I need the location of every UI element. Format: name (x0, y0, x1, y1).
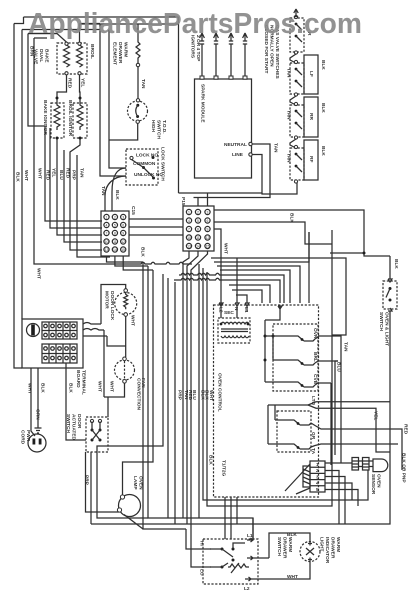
fan center dashes (124, 361, 126, 380)
svg-text:13: 13 (105, 248, 109, 252)
right bus x332 down (331, 230, 333, 463)
svg-text:WHT: WHT (223, 243, 229, 254)
svg-text:PRP: PRP (71, 170, 77, 181)
svg-text:LOCK SWITCH: LOCK SWITCH (160, 147, 166, 181)
svg-text:WHT: WHT (23, 170, 29, 181)
svg-text:3: 3 (122, 215, 124, 219)
svg-text:4: 4 (188, 219, 190, 223)
svg-text:AppliancePartsPros.com: AppliancePartsPros.com (28, 8, 362, 40)
wire RR to RF (290, 139, 296, 148)
wire R to LF (290, 54, 296, 63)
motor coil (124, 292, 128, 309)
svg-text:RED: RED (67, 78, 73, 89)
convection fan circle (115, 360, 135, 380)
wire P15 feed left x186 (178, 17, 180, 193)
terminal block right wires (325, 471, 358, 525)
oven lamp circle (119, 495, 141, 517)
svg-text:TAN: TAN (343, 342, 349, 352)
RF contacts (294, 145, 297, 148)
svg-text:YEL: YEL (51, 168, 57, 177)
svg-text:T.O.D.: T.O.D. (161, 120, 167, 134)
terminal strip upper (42, 322, 77, 339)
band wire 8 (232, 290, 262, 303)
transformer top wires (221, 303, 247, 318)
svg-text:LO: LO (199, 569, 205, 576)
gas valve switch RF dashed box (290, 148, 304, 180)
svg-text:BLK: BLK (320, 60, 326, 70)
broil ignitor dashed box (73, 103, 87, 138)
wire line (179, 155, 263, 207)
wire P15 right down x221 (214, 229, 221, 303)
connector P15 box (183, 206, 214, 251)
wire top rail L3 (28, 33, 57, 35)
terminal circles valve bottom (65, 72, 68, 75)
terminal squares on module top (200, 76, 204, 79)
wire left bus TAN x77 (77, 155, 110, 257)
middle vertical BLK x199 (198, 264, 200, 518)
wire WHT down from board (31, 368, 38, 436)
svg-text:TAN: TAN (273, 143, 279, 153)
svg-text:10: 10 (105, 240, 109, 244)
svg-text:OVEN & LIGHT: OVEN & LIGHT (384, 312, 390, 346)
band wire 2 (214, 232, 309, 262)
svg-text:4: 4 (106, 223, 108, 227)
svg-text:WHT: WHT (97, 381, 103, 392)
wire left bus BLU x56 (57, 138, 102, 235)
wire R top (294, 9, 298, 17)
svg-text:OVR: OVR (312, 328, 318, 339)
BOTTOM (186, 453, 407, 592)
junction dot broil (79, 97, 82, 100)
resistor bake ignitor (54, 103, 60, 130)
svg-text:12: 12 (206, 236, 210, 240)
GASVALVES (263, 9, 326, 183)
transformer T1 box (218, 318, 250, 343)
svg-text:RED: RED (45, 170, 51, 181)
relay cluster 2 dashed box (277, 411, 311, 452)
resistor warm drawer element (136, 24, 140, 64)
svg-text:3: 3 (207, 210, 209, 214)
svg-text:C15: C15 (130, 206, 136, 215)
svg-text:LIGHT: LIGHT (319, 537, 325, 551)
wire valve to ignitor left (57, 75, 67, 103)
ignitor wire 4 with arrow (243, 33, 248, 79)
transformer primary coil (221, 322, 249, 324)
switch R contacts (294, 15, 297, 18)
wire left bus BRN x28 (28, 34, 102, 222)
svg-text:BLK: BLK (140, 247, 146, 257)
band wire 6 (174, 278, 280, 303)
wire left bus YEL x50 (50, 128, 102, 228)
LF solid box (304, 55, 318, 94)
svg-text:RED: RED (65, 168, 71, 179)
svg-text:RF: RF (308, 156, 314, 162)
wire fan bottom (104, 383, 125, 417)
svg-text:14: 14 (196, 244, 200, 248)
ignitor wire 3 with arrow (229, 33, 234, 79)
warm drawer switch dashed box (203, 539, 258, 584)
svg-text:LOCK NO: LOCK NO (136, 153, 158, 159)
svg-text:OVEN: OVEN (376, 474, 382, 488)
svg-text:NEUTRAL: NEUTRAL (224, 142, 247, 148)
svg-text:CVB: CVB (312, 374, 318, 385)
spark module box U1 (195, 79, 252, 178)
svg-text:SPARK MODULE: SPARK MODULE (200, 84, 206, 123)
wire element to tod (137, 67, 139, 99)
right bus x309 down (308, 232, 310, 303)
wire C15 bottom col1 (107, 256, 144, 262)
svg-text:9: 9 (122, 231, 124, 235)
warm drawer switch contacts (221, 548, 224, 551)
svg-text:GRN: GRN (35, 409, 41, 420)
svg-text:9: 9 (207, 227, 209, 231)
svg-text:RED: RED (403, 424, 409, 435)
wire left bus WHT x34 (34, 38, 192, 264)
svg-text:BLK: BLK (393, 259, 399, 269)
wire line to valves rail (262, 183, 297, 194)
svg-text:12: 12 (121, 240, 125, 244)
svg-text:YEL: YEL (80, 78, 86, 87)
wire valve to ignitor right (79, 75, 82, 103)
t.o.d. terminal bottom (136, 120, 139, 123)
terminal L2 (245, 577, 298, 581)
svg-text:TAN: TAN (286, 68, 292, 78)
svg-text:BRL: BRL (312, 352, 318, 362)
wire top rail L1 (24, 16, 179, 18)
lock switch lever (132, 160, 154, 178)
svg-text:PRP: PRP (177, 390, 183, 401)
svg-text:SENSOR: SENSOR (370, 474, 376, 495)
relay rail 1 (264, 320, 266, 382)
wire warm drawer element feed (100, 24, 126, 177)
oven sensor bulb (373, 459, 388, 472)
lock switch dashed box (126, 149, 158, 185)
pwr cord plug (28, 434, 46, 452)
relay terminal 1A (315, 336, 330, 339)
svg-text:COMMON: COMMON (133, 161, 156, 167)
svg-text:5: 5 (316, 487, 319, 493)
wire motor top (101, 285, 126, 325)
relay rail 2 (268, 405, 308, 444)
oven light switch dashed box (383, 281, 397, 309)
junction dot broil ignitor bottom (79, 137, 82, 140)
svg-text:BROIL: BROIL (89, 44, 95, 59)
svg-text:TA: TA (310, 448, 316, 455)
svg-text:WARM: WARM (123, 42, 129, 57)
svg-text:OVEN CONTROL: OVEN CONTROL (217, 373, 223, 412)
svg-text:DOOR LOCK: DOOR LOCK (109, 291, 115, 321)
FRAME_AND_BUS (14, 17, 192, 368)
relay wedge terminal (308, 402, 390, 452)
relay contact 2B (268, 444, 311, 449)
svg-text:BLU: BLU (191, 390, 197, 400)
svg-text:SWITCH: SWITCH (156, 120, 162, 139)
TOPLEFT (28, 24, 167, 212)
middle vertical E x168 (167, 278, 169, 518)
svg-text:15: 15 (121, 248, 125, 252)
svg-text:SWITCH: SWITCH (276, 537, 282, 556)
wire lock switch feeds (105, 168, 126, 211)
C15 pins (104, 214, 126, 252)
oven ctl bottom vert 1 (224, 497, 226, 539)
LF contacts (294, 60, 297, 63)
wire top rail L2 (22, 24, 179, 319)
svg-text:BROIL IGNITOR: BROIL IGNITOR (67, 100, 73, 137)
wire wd top blk (269, 533, 310, 558)
vertical x104 (103, 330, 105, 397)
svg-text:WHT: WHT (130, 315, 136, 326)
line terminal (249, 153, 252, 156)
wire bake valve top (28, 34, 67, 43)
svg-text:WHT: WHT (109, 381, 115, 392)
middle vertical B x148 (148, 266, 253, 539)
oven ctl bottom vert 3 (236, 497, 238, 524)
ignitor wire 2 with arrow (214, 33, 219, 79)
svg-text:10: 10 (187, 236, 191, 240)
svg-text:HI: HI (199, 541, 205, 546)
terminal L2 on top (219, 303, 223, 306)
CONNECTORS (97, 17, 390, 567)
wire left bus RED2 x64 (64, 150, 102, 242)
svg-text:N: N (233, 307, 239, 311)
terminal board power stud (27, 324, 40, 337)
door lock motor circle (115, 293, 137, 315)
wire C15 bottom col3 (123, 256, 153, 270)
svg-text:SEC: SEC (224, 310, 234, 316)
svg-text:RR: RR (308, 113, 314, 120)
relay terminal 1B (315, 361, 338, 363)
svg-text:14: 14 (113, 248, 117, 252)
svg-text:FAN: FAN (140, 378, 146, 388)
transformer core (221, 329, 248, 332)
RIGHTBUS (91, 230, 409, 524)
svg-text:BLK: BLK (320, 103, 326, 113)
svg-text:BRN: BRN (29, 46, 35, 57)
svg-text:1: 1 (188, 210, 190, 214)
svg-text:15: 15 (206, 244, 210, 248)
terminal N on top (235, 258, 239, 306)
bake/broil dual valve dashed box (57, 43, 87, 74)
svg-text:GR: GR (310, 432, 316, 440)
oven control dashed box (214, 305, 319, 497)
transformer secondary coil (221, 336, 249, 338)
svg-text:2: 2 (114, 215, 116, 219)
resistor broil valve (77, 45, 83, 67)
svg-text:MOTOR: MOTOR (104, 291, 110, 309)
svg-text:LAMP: LAMP (132, 476, 138, 490)
svg-text:P15: P15 (180, 197, 186, 206)
svg-text:6: 6 (207, 219, 209, 223)
wire C15 to P15 row3 (129, 234, 183, 236)
svg-text:BAKE IGNITOR: BAKE IGNITOR (42, 100, 48, 135)
svg-text:BLK: BLK (114, 190, 120, 200)
svg-text:SWITCH: SWITCH (65, 414, 71, 433)
svg-text:6: 6 (122, 223, 124, 227)
transformer dots (220, 323, 223, 326)
bake ignitor dashed box (51, 103, 64, 138)
svg-text:PWR: PWR (25, 430, 31, 442)
wire TAN down (330, 336, 341, 463)
band wire 7 (229, 285, 270, 303)
svg-text:LINE: LINE (232, 152, 244, 158)
right page rail (91, 452, 390, 524)
bottom nested corner 1 (90, 452, 92, 524)
svg-text:TAN: TAN (79, 168, 85, 178)
gas valve switch LF dashed box (290, 63, 304, 94)
ground symbol (35, 425, 42, 433)
lock switch contact lock (130, 156, 133, 159)
P15 pins (186, 209, 210, 248)
relay cluster 1 dashed box (273, 324, 318, 391)
svg-text:ELEMENT: ELEMENT (112, 42, 118, 65)
svg-text:8: 8 (197, 227, 199, 231)
bottom wires into warm drawer (186, 529, 211, 549)
svg-text:L1: L1 (247, 533, 253, 539)
svg-text:BLK: BLK (40, 383, 46, 393)
oven light switch terminals (388, 256, 392, 282)
t.o.d. switch circle (128, 101, 148, 121)
wire BLK top band (214, 210, 390, 256)
svg-text:1: 1 (316, 462, 319, 468)
svg-text:TAN: TAN (140, 79, 146, 89)
svg-text:13: 13 (187, 244, 191, 248)
svg-text:CORD: CORD (20, 430, 26, 445)
connector C15 box (101, 211, 129, 256)
middle vertical D x163 (97, 274, 163, 452)
svg-text:3: 3 (316, 474, 319, 480)
wire BLK down from board (66, 363, 86, 440)
warm drawer indicator light (300, 542, 320, 562)
svg-text:WHT: WHT (36, 268, 42, 279)
RR contacts (294, 102, 297, 105)
middle vertical BLK x203 (203, 268, 368, 500)
wire left bus PRP x70 (70, 139, 102, 250)
svg-text:5: 5 (197, 219, 199, 223)
svg-text:BAKE: BAKE (44, 49, 50, 63)
wire wd bottom wht (298, 562, 310, 580)
relay contact 1C (265, 382, 315, 387)
junction dot bake (56, 97, 59, 100)
relay terminal 2B (311, 444, 398, 447)
element terminal (136, 63, 139, 66)
svg-text:WHT: WHT (37, 168, 43, 179)
junction dot 364 (363, 252, 366, 255)
wire band y253 (330, 252, 364, 254)
svg-text:TAN: TAN (286, 153, 292, 163)
svg-text:11: 11 (113, 240, 117, 244)
svg-text:DRAWER: DRAWER (282, 537, 288, 559)
svg-text:4: 4 (316, 481, 319, 487)
SPARKMODULE (179, 33, 298, 206)
band wire 5 (179, 273, 284, 303)
bottom nested corner 2 (97, 452, 148, 518)
terminal L1 (247, 518, 253, 542)
band wire 9 (236, 295, 247, 303)
wire band y222 (214, 222, 332, 244)
middle vertical A x143 (143, 262, 186, 529)
svg-text:TERMINAL: TERMINAL (81, 370, 87, 395)
relay terminal 2A (311, 423, 402, 470)
svg-text:WHT: WHT (287, 574, 298, 580)
svg-text:DRAWER: DRAWER (330, 537, 336, 559)
neutral terminal (249, 142, 252, 145)
frame corner step (14, 17, 24, 368)
svg-text:ACTUATED: ACTUATED (71, 414, 77, 441)
svg-text:BLK: BLK (320, 146, 326, 156)
band wire 1 (211, 258, 346, 335)
svg-text:WHT: WHT (27, 383, 33, 394)
svg-text:LTO: LTO (310, 396, 316, 405)
wire neutral (194, 144, 271, 206)
terminal block fan wires (285, 464, 310, 494)
svg-text:BLU: BLU (58, 170, 64, 180)
relay terminal 1C (315, 383, 331, 385)
oven sensor hatched plug (352, 458, 373, 471)
middle vertical F x175 (174, 282, 176, 524)
wire C15 bottom col2 (115, 256, 148, 266)
svg-text:INDICATOR: INDICATOR (324, 537, 330, 564)
middle vertical WHT x207 (207, 272, 332, 506)
wire broil valve top (80, 24, 101, 43)
P15 bottom col verticals TAN RED BLU (183, 251, 189, 518)
lock switch contact unlock (152, 177, 155, 180)
svg-text:BLK OR PNP: BLK OR PNP (401, 453, 407, 483)
relay rail top feed (265, 306, 282, 320)
RF solid box (304, 140, 318, 180)
lock switch common (142, 166, 145, 169)
wire lamp diagonal (124, 515, 143, 530)
svg-text:WARM: WARM (335, 537, 341, 552)
svg-text:HIGH: HIGH (150, 120, 156, 133)
terminal block T1/T2G hatch (303, 466, 310, 487)
terminal B (247, 556, 269, 560)
oven ctl bottom vert 2 (230, 497, 232, 539)
svg-text:LF: LF (308, 71, 314, 77)
OVENCONTROL (208, 258, 403, 524)
oven sensor feed (325, 462, 352, 464)
middle vertical C x153 (123, 270, 154, 495)
relay contact 1B (264, 359, 267, 362)
relay contact 1A (264, 335, 267, 338)
wire C15 to P15 row2 (129, 226, 183, 228)
svg-text:11: 11 (196, 236, 200, 240)
terminal board right jumpers (83, 323, 107, 337)
svg-text:SWITCH: SWITCH (378, 312, 384, 331)
ignitor wire 1 with arrow (200, 33, 205, 79)
svg-text:PRP: PRP (84, 475, 90, 486)
terminal block T1/T2G cells (310, 461, 325, 492)
svg-text:OVEN: OVEN (138, 476, 144, 490)
svg-text:BLK: BLK (15, 172, 21, 182)
svg-text:1: 1 (106, 215, 108, 219)
svg-text:2: 2 (197, 210, 199, 214)
t.o.d. terminal top (136, 99, 139, 102)
wire x109 (108, 30, 110, 141)
svg-text:DRAWER: DRAWER (117, 42, 123, 64)
svg-text:DOOR: DOOR (76, 414, 82, 429)
svg-text:L2: L2 (244, 586, 250, 592)
wire tod to lock area (109, 123, 138, 168)
band wire 3 (217, 266, 300, 303)
band wire 4 (220, 270, 290, 303)
gas valve switch R dashed box (290, 18, 304, 52)
terminal circles valve top (65, 42, 68, 45)
BOTTOMLEFT (20, 285, 146, 530)
terminal L1 on top (245, 303, 249, 306)
svg-text:5: 5 (114, 223, 116, 227)
svg-text:TAN: TAN (286, 110, 292, 120)
warm drawer resistor (228, 563, 249, 573)
